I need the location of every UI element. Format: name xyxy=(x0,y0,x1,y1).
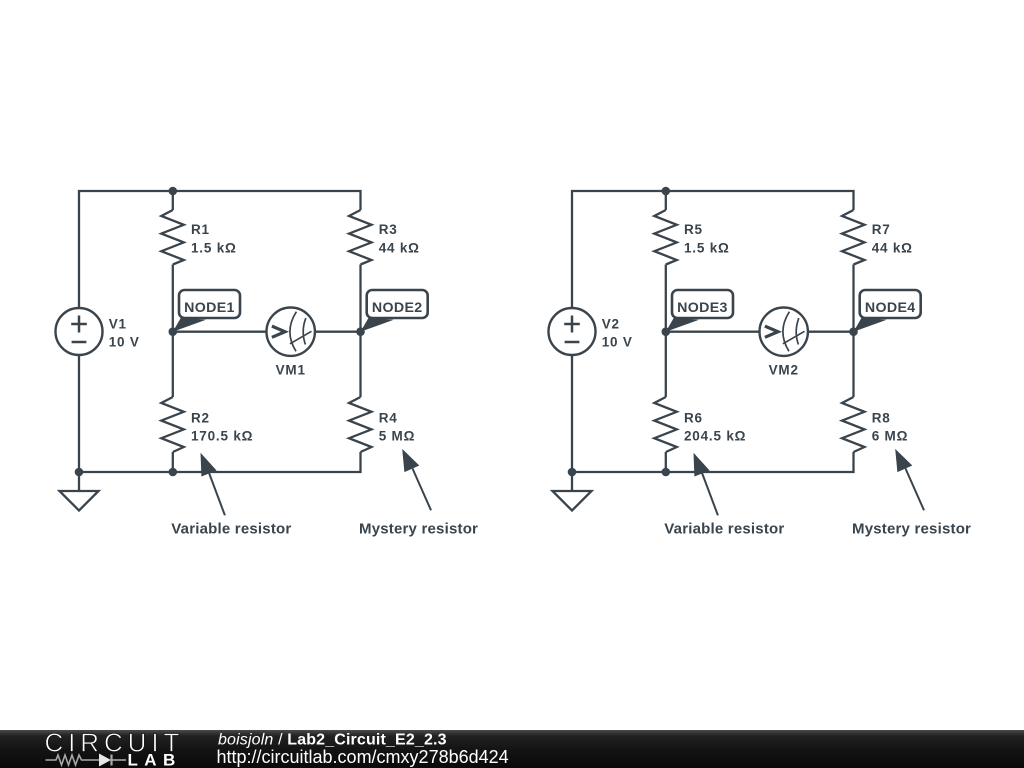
svg-text:1.5 kΩ: 1.5 kΩ xyxy=(191,241,237,256)
svg-text:NODE2: NODE2 xyxy=(372,300,423,316)
svg-text:NODE4: NODE4 xyxy=(865,300,916,316)
svg-text:10 V: 10 V xyxy=(602,335,633,350)
svg-text:R3: R3 xyxy=(379,222,398,237)
svg-text:R8: R8 xyxy=(872,410,891,425)
svg-text:R5: R5 xyxy=(684,222,703,237)
svg-text:170.5 kΩ: 170.5 kΩ xyxy=(191,429,253,444)
svg-text:V1: V1 xyxy=(109,317,127,332)
svg-text:V2: V2 xyxy=(602,317,620,332)
svg-text:VM1: VM1 xyxy=(276,363,306,378)
svg-text:R2: R2 xyxy=(191,410,210,425)
svg-text:6 MΩ: 6 MΩ xyxy=(872,429,909,444)
svg-text:44 kΩ: 44 kΩ xyxy=(872,241,913,256)
svg-text:boisjoln / Lab2_Circuit_E2_2.3: boisjoln / Lab2_Circuit_E2_2.3 xyxy=(218,732,447,749)
svg-text:LAB: LAB xyxy=(128,751,182,768)
svg-text:Variable resistor: Variable resistor xyxy=(664,521,784,538)
svg-text:5 MΩ: 5 MΩ xyxy=(379,429,416,444)
svg-text:R7: R7 xyxy=(872,222,891,237)
svg-text:1.5 kΩ: 1.5 kΩ xyxy=(684,241,730,256)
svg-text:R4: R4 xyxy=(379,410,398,425)
svg-text:VM2: VM2 xyxy=(769,363,799,378)
svg-text:Mystery resistor: Mystery resistor xyxy=(359,521,478,538)
svg-text:Mystery resistor: Mystery resistor xyxy=(852,521,971,538)
svg-text:204.5 kΩ: 204.5 kΩ xyxy=(684,429,746,444)
svg-text:R6: R6 xyxy=(684,410,703,425)
svg-text:10 V: 10 V xyxy=(109,335,140,350)
svg-text:R1: R1 xyxy=(191,222,210,237)
svg-text:http://circuitlab.com/cmxy278b: http://circuitlab.com/cmxy278b6d424 xyxy=(217,747,509,767)
svg-text:Variable resistor: Variable resistor xyxy=(171,521,291,538)
svg-text:NODE3: NODE3 xyxy=(677,300,728,316)
svg-text:NODE1: NODE1 xyxy=(184,300,235,316)
svg-text:44 kΩ: 44 kΩ xyxy=(379,241,420,256)
